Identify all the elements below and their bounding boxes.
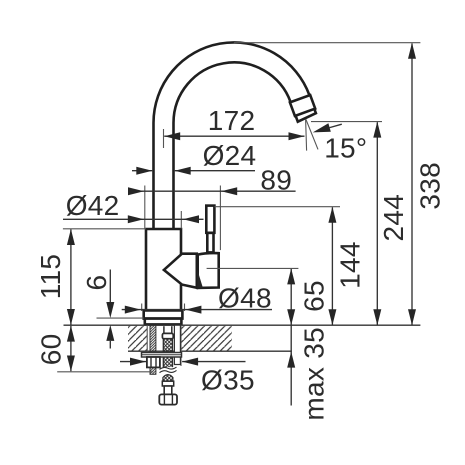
dimension 244 <box>373 122 409 326</box>
mounting hole edge right <box>180 325 182 366</box>
hose crimp collar <box>162 333 173 338</box>
left hatch <box>128 326 148 351</box>
svg-text:max 35: max 35 <box>298 327 329 421</box>
svg-text:115: 115 <box>35 254 66 300</box>
svg-text:172: 172 <box>208 105 256 136</box>
mounting hole edge left <box>146 325 148 368</box>
dimension diameter 48 <box>122 283 272 314</box>
svg-text:89: 89 <box>260 165 292 196</box>
handle dark sliver <box>197 269 203 287</box>
faucet body <box>146 229 181 311</box>
dimension 144 <box>328 207 365 326</box>
svg-text:15°: 15° <box>324 133 367 164</box>
washer plate <box>142 353 182 358</box>
dimension 172 <box>164 105 304 140</box>
svg-text:244: 244 <box>378 194 409 242</box>
counter top line <box>64 324 421 326</box>
hose break squiggle <box>160 367 177 369</box>
svg-text:65: 65 <box>299 280 330 312</box>
extension line flange right <box>184 304 186 312</box>
dimension diameter 24 <box>132 140 256 175</box>
dimension 338 <box>408 43 446 326</box>
svg-text:Ø35: Ø35 <box>201 364 255 395</box>
svg-text:Ø24: Ø24 <box>203 140 257 171</box>
dimension diameter 35 <box>120 358 255 396</box>
plain stud right <box>174 325 180 364</box>
aerator band at spout tip <box>290 95 315 116</box>
bottom reference line for 60 <box>57 371 153 373</box>
hose braid upper <box>163 339 173 367</box>
svg-text:144: 144 <box>334 241 365 289</box>
base flange <box>144 310 183 318</box>
svg-text:6: 6 <box>81 275 112 291</box>
dimension 65 <box>287 268 329 351</box>
dimension 6 <box>81 270 114 349</box>
dimension max 35 <box>287 327 329 421</box>
dimension 89 <box>128 165 296 251</box>
handle stick lower <box>207 233 213 253</box>
flange bottom reference line for 6 <box>97 317 144 319</box>
handle stick upper <box>206 206 214 233</box>
svg-text:338: 338 <box>415 162 446 210</box>
svg-text:Ø42: Ø42 <box>66 190 120 221</box>
base plate <box>145 319 182 325</box>
handle hub pentagon on body <box>164 254 197 288</box>
svg-text:60: 60 <box>35 334 66 366</box>
handle box <box>198 253 219 288</box>
angle 15 deg arrow <box>313 123 331 132</box>
svg-text:Ø48: Ø48 <box>218 283 272 314</box>
hose crimp band lower <box>162 381 173 386</box>
right hatch <box>181 326 232 351</box>
hose top tube lines <box>163 326 165 333</box>
dimension diameter 42 <box>63 190 204 228</box>
counter bottom line <box>128 350 292 352</box>
dimension 60 <box>35 326 75 372</box>
extension line flange left <box>141 304 143 312</box>
spout outlet reference line <box>311 121 382 123</box>
top tangent reference line <box>234 42 421 44</box>
threaded stud left <box>150 325 156 374</box>
nut on stud <box>147 357 160 367</box>
body top reference line for 115 <box>63 228 146 230</box>
dimension 115 <box>35 229 75 325</box>
handle top reference line <box>215 206 341 208</box>
centerline tick for 172 <box>163 129 165 148</box>
handle leader line for 65 <box>207 267 299 269</box>
hose hex nut <box>159 394 177 404</box>
angle 15 deg thin lines <box>306 119 307 150</box>
hose braid lower dome <box>163 375 173 382</box>
spout tube (gooseneck) <box>154 42 316 230</box>
hose tube <box>164 386 172 394</box>
